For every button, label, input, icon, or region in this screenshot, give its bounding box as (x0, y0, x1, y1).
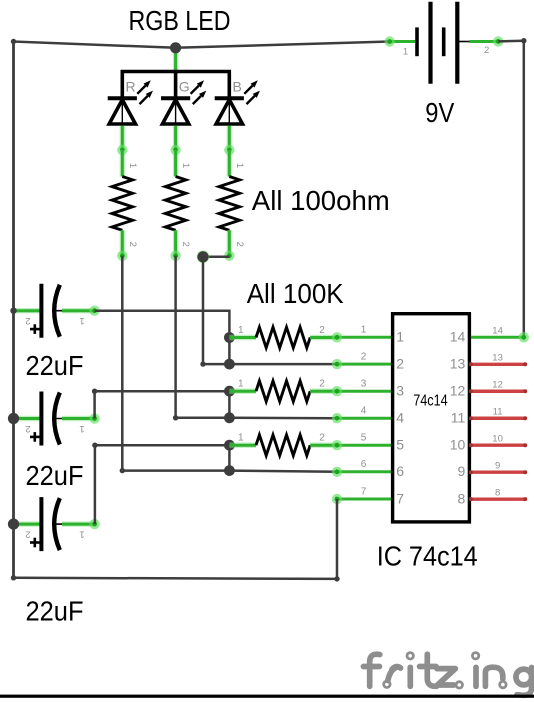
svg-text:5: 5 (361, 433, 367, 444)
IC pin 6 stub (337, 470, 392, 473)
wire battery pin2 to top-right corner (498, 39, 524, 42)
resistor 100ohm #1 (120, 150, 125, 177)
svg-text:9V: 9V (425, 97, 454, 128)
capacitor 22uF #3 (16, 521, 40, 526)
LED B (RGB LED element 3) (215, 96, 244, 100)
svg-text:6: 6 (396, 463, 404, 479)
svg-text:4: 4 (396, 410, 404, 426)
svg-text:1: 1 (79, 315, 84, 326)
wire junction to battery pin 1 (176, 42, 390, 48)
svg-text:RGB LED: RGB LED (129, 5, 231, 36)
svg-text:13: 13 (492, 353, 503, 364)
wire link pin3-pin4 rows (228, 391, 231, 418)
bendpoint (200, 361, 205, 366)
wire LED bus (122, 72, 229, 99)
wire pin2 row to IC (229, 363, 337, 366)
svg-text:22uF: 22uF (26, 460, 84, 491)
node top junction (170, 42, 181, 53)
svg-text:2: 2 (127, 242, 138, 247)
IC pin 1 stub (337, 336, 392, 339)
wire cap1 to pin1 row (95, 311, 230, 338)
svg-text:7: 7 (396, 490, 404, 506)
svg-text:13: 13 (450, 355, 466, 371)
svg-text:6: 6 (361, 459, 367, 470)
svg-text:1: 1 (403, 47, 408, 58)
svg-text:1: 1 (234, 163, 245, 168)
svg-text:10: 10 (450, 437, 466, 453)
svg-text:8: 8 (495, 487, 500, 498)
svg-text:2: 2 (234, 242, 245, 247)
IC pin 4 stub (337, 417, 392, 420)
svg-text:4: 4 (361, 406, 367, 417)
wire right rail down to IC pin 14 (523, 41, 526, 338)
svg-text:22uF: 22uF (26, 595, 84, 626)
resistor 100K #2 (229, 389, 256, 394)
wire resistor2 down to pin4 row (176, 256, 230, 418)
bendpoint (173, 415, 178, 420)
wire top-left corner to junction (14, 42, 176, 48)
LED G (RGB LED element 2) (161, 96, 190, 100)
IC pin 7 stub (337, 498, 392, 501)
wire cap2 up and to pin3 row (95, 391, 230, 418)
svg-text:IC 74c14: IC 74c14 (377, 540, 478, 571)
IC pin 10 stub (unconnected) (471, 444, 525, 447)
wire IC pin7 down and left to rail (14, 499, 338, 579)
wire link pin1-pin2 rows (228, 338, 231, 365)
wire pin4 row to IC (229, 417, 337, 420)
resistor 100ohm #2 (173, 150, 178, 177)
svg-text:2: 2 (319, 379, 325, 390)
capacitor 22uF #2 (16, 416, 40, 421)
svg-text:1: 1 (79, 529, 84, 540)
svg-text:G: G (179, 79, 190, 95)
IC pin 13 stub (unconnected) (471, 363, 525, 366)
svg-text:14: 14 (450, 329, 466, 345)
battery 9V (389, 40, 415, 43)
svg-text:B: B (233, 79, 242, 95)
resistor 100K #1 (229, 335, 256, 340)
LED R (RGB LED element 1) (108, 96, 137, 100)
wire junction to LED bus (173, 48, 178, 72)
bendpoint (92, 389, 97, 394)
IC pin 12 stub (unconnected) (471, 390, 525, 393)
svg-text:2: 2 (484, 45, 489, 56)
svg-text:14: 14 (492, 325, 503, 336)
svg-text:All 100K: All 100K (247, 278, 344, 309)
wire cap3 up and to pin5 row (95, 445, 230, 524)
svg-text:2: 2 (25, 315, 30, 326)
svg-text:1: 1 (79, 423, 84, 434)
svg-text:11: 11 (451, 410, 466, 426)
wire resistor1 down to pin6 row (122, 256, 229, 471)
svg-text:9: 9 (458, 463, 466, 479)
svg-text:3: 3 (361, 379, 367, 390)
bottom border line (0, 695, 534, 698)
svg-text:R: R (126, 79, 136, 95)
bendpoint bottom-left (11, 575, 16, 580)
bendpoint (120, 468, 125, 473)
IC pin 9 stub (unconnected) (471, 471, 525, 474)
svg-text:1: 1 (127, 163, 138, 168)
fritzing logo (363, 664, 379, 670)
node junction at IC row y=391.2 (224, 386, 235, 397)
svg-text:74c14: 74c14 (413, 392, 448, 409)
wire LED-B resistor to junction node (203, 255, 229, 258)
svg-text:1: 1 (180, 163, 191, 168)
bendpoint top-left (11, 39, 16, 44)
svg-text:2: 2 (25, 423, 30, 434)
svg-text:2: 2 (25, 529, 30, 540)
svg-text:12: 12 (492, 380, 503, 391)
node junction at IC row y=337.5 (224, 332, 235, 343)
svg-text:2: 2 (180, 242, 191, 247)
bendpoint (334, 576, 339, 581)
svg-text:9: 9 (495, 461, 500, 472)
IC pin 3 stub (337, 390, 392, 393)
svg-text:2: 2 (361, 352, 367, 363)
svg-text:1: 1 (396, 329, 404, 345)
wire link pin5-pin6 rows (228, 445, 231, 470)
wire pin6 row to IC (229, 471, 337, 472)
svg-text:1: 1 (238, 325, 244, 336)
node junction at IC row y=470.6 (224, 465, 235, 476)
svg-text:All 100ohm: All 100ohm (252, 185, 390, 216)
resistor 100K #3 (229, 443, 256, 448)
svg-text:2: 2 (396, 355, 404, 371)
svg-text:22uF: 22uF (26, 350, 84, 381)
bendpoint top-right (521, 38, 526, 43)
IC pin 11 stub (unconnected) (471, 417, 525, 420)
bendpoint (92, 443, 97, 448)
IC pin 8 stub (unconnected) (471, 497, 525, 500)
wire left rail (12, 42, 15, 578)
wire junction down to pin2 row (203, 257, 229, 364)
svg-text:8: 8 (458, 490, 466, 506)
svg-text:1: 1 (361, 325, 367, 336)
IC U1 74c14 body (393, 314, 470, 522)
node junction at IC row y=445.2 (224, 440, 235, 451)
IC pin 2 stub (337, 363, 392, 366)
capacitor 22uF #1 (16, 308, 40, 313)
svg-text:1: 1 (238, 379, 244, 390)
node junction at IC row y=417.8 (224, 412, 235, 423)
svg-text:11: 11 (493, 407, 503, 418)
resistor 100ohm #3 (227, 150, 232, 177)
svg-text:3: 3 (396, 383, 404, 399)
svg-text:7: 7 (361, 486, 367, 497)
svg-text:5: 5 (396, 437, 404, 453)
svg-text:2: 2 (319, 433, 325, 444)
node junction at IC row y=364.1 (224, 359, 235, 370)
svg-text:12: 12 (450, 383, 466, 399)
node junction below resistor 3 (197, 250, 210, 263)
svg-text:10: 10 (492, 434, 503, 445)
svg-text:2: 2 (319, 325, 325, 336)
IC pin 5 stub (337, 444, 392, 447)
IC pin 14 stub to rail (471, 336, 524, 339)
svg-text:1: 1 (238, 433, 244, 444)
